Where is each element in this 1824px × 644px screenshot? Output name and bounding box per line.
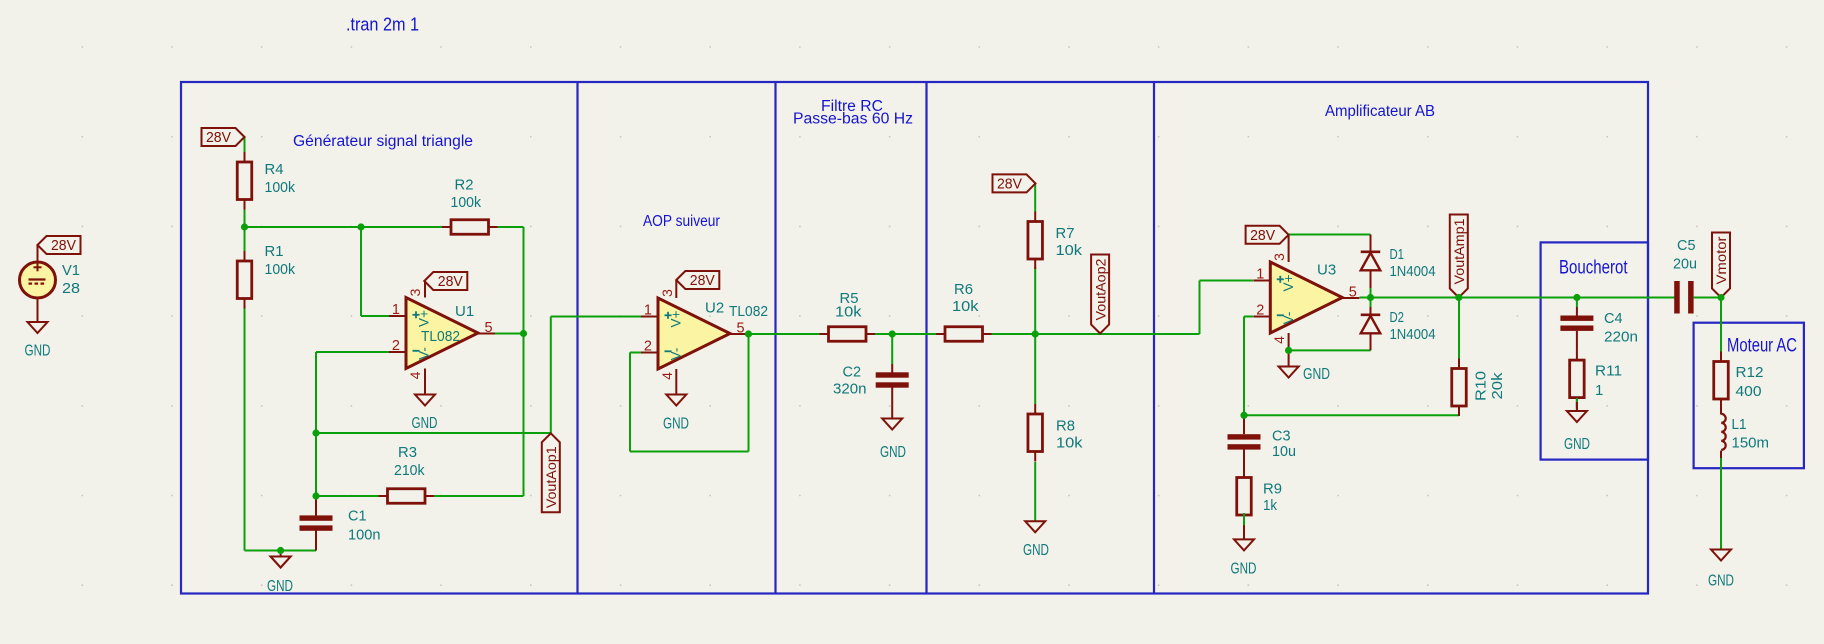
svg-text:Passe-bas 60 Hz: Passe-bas 60 Hz bbox=[793, 111, 913, 128]
svg-text:GND: GND bbox=[1023, 542, 1049, 559]
svg-text:28V: 28V bbox=[438, 274, 463, 290]
svg-text:C1: C1 bbox=[348, 508, 367, 525]
svg-text:V-: V- bbox=[669, 348, 684, 361]
svg-text:V1: V1 bbox=[62, 262, 80, 279]
svg-text:.tran 2m 1: .tran 2m 1 bbox=[346, 15, 419, 35]
svg-text:U3: U3 bbox=[1317, 262, 1336, 279]
svg-text:GND: GND bbox=[1708, 573, 1734, 590]
svg-text:10k: 10k bbox=[1056, 435, 1083, 452]
svg-text:1: 1 bbox=[1595, 382, 1603, 399]
svg-text:3: 3 bbox=[407, 288, 423, 296]
svg-text:GND: GND bbox=[880, 444, 906, 461]
svg-text:VoutAop1: VoutAop1 bbox=[543, 446, 559, 508]
svg-text:GND: GND bbox=[1303, 366, 1330, 383]
svg-text:R6: R6 bbox=[954, 281, 973, 298]
svg-text:GND: GND bbox=[267, 578, 293, 595]
svg-text:2: 2 bbox=[1256, 303, 1264, 319]
svg-text:5: 5 bbox=[737, 321, 745, 337]
svg-text:R8: R8 bbox=[1056, 418, 1075, 435]
svg-text:28: 28 bbox=[62, 280, 80, 297]
svg-text:R4: R4 bbox=[265, 161, 284, 178]
svg-text:TL082: TL082 bbox=[421, 328, 460, 345]
svg-text:3: 3 bbox=[659, 289, 675, 297]
svg-text:R10: R10 bbox=[1473, 371, 1490, 401]
svg-text:3: 3 bbox=[1271, 253, 1287, 261]
svg-text:1N4004: 1N4004 bbox=[1390, 263, 1436, 280]
svg-text:320n: 320n bbox=[833, 381, 867, 398]
svg-text:GND: GND bbox=[663, 416, 689, 433]
svg-text:Moteur AC: Moteur AC bbox=[1727, 335, 1797, 357]
svg-text:20u: 20u bbox=[1673, 256, 1697, 273]
svg-text:R3: R3 bbox=[398, 444, 417, 461]
svg-text:V-: V- bbox=[1281, 312, 1296, 325]
svg-text:150m: 150m bbox=[1732, 435, 1770, 452]
svg-text:100k: 100k bbox=[265, 261, 296, 278]
svg-text:10k: 10k bbox=[952, 298, 979, 315]
svg-text:28V: 28V bbox=[997, 177, 1022, 193]
svg-text:5: 5 bbox=[1349, 285, 1357, 301]
svg-text:V+: V+ bbox=[669, 310, 684, 327]
svg-text:R7: R7 bbox=[1056, 225, 1075, 242]
svg-text:VoutAop2: VoutAop2 bbox=[1092, 258, 1108, 320]
svg-text:28V: 28V bbox=[690, 273, 715, 289]
svg-text:Boucherot: Boucherot bbox=[1559, 257, 1628, 279]
svg-text:R12: R12 bbox=[1736, 364, 1764, 381]
svg-text:1N4004: 1N4004 bbox=[1390, 326, 1436, 343]
svg-text:28V: 28V bbox=[51, 238, 76, 254]
svg-text:4: 4 bbox=[407, 371, 423, 379]
svg-text:GND: GND bbox=[412, 415, 438, 432]
svg-text:V+: V+ bbox=[1281, 274, 1296, 291]
svg-text:V-: V- bbox=[417, 347, 432, 360]
svg-text:C5: C5 bbox=[1677, 237, 1696, 254]
svg-text:TL082: TL082 bbox=[729, 303, 768, 320]
svg-text:10k: 10k bbox=[1056, 242, 1083, 259]
svg-text:GND: GND bbox=[25, 343, 51, 360]
svg-text:AOP suiveur: AOP suiveur bbox=[643, 213, 720, 230]
svg-text:U2: U2 bbox=[705, 300, 724, 317]
svg-text:1: 1 bbox=[1256, 267, 1264, 283]
svg-text:4: 4 bbox=[659, 372, 675, 380]
svg-text:C4: C4 bbox=[1604, 310, 1623, 327]
svg-text:Vmotor: Vmotor bbox=[1713, 236, 1729, 284]
svg-text:220n: 220n bbox=[1604, 329, 1638, 346]
svg-text:C3: C3 bbox=[1272, 428, 1291, 445]
svg-text:100k: 100k bbox=[265, 179, 296, 196]
svg-text:U1: U1 bbox=[455, 303, 474, 320]
svg-text:2: 2 bbox=[644, 339, 652, 355]
svg-text:Amplificateur AB: Amplificateur AB bbox=[1325, 103, 1435, 120]
svg-text:10k: 10k bbox=[835, 304, 862, 321]
svg-text:400: 400 bbox=[1736, 383, 1762, 400]
svg-text:R11: R11 bbox=[1595, 363, 1622, 380]
svg-text:R1: R1 bbox=[265, 243, 284, 260]
svg-text:5: 5 bbox=[485, 320, 493, 336]
svg-text:100n: 100n bbox=[348, 527, 381, 544]
svg-text:4: 4 bbox=[1271, 336, 1287, 344]
svg-text:20k: 20k bbox=[1489, 372, 1506, 400]
svg-text:R9: R9 bbox=[1263, 481, 1282, 498]
svg-text:1: 1 bbox=[392, 302, 400, 318]
svg-text:R2: R2 bbox=[455, 177, 474, 194]
svg-text:V+: V+ bbox=[417, 310, 432, 327]
svg-text:C2: C2 bbox=[843, 364, 862, 381]
svg-text:10u: 10u bbox=[1272, 443, 1296, 460]
svg-text:1k: 1k bbox=[1263, 497, 1277, 514]
svg-text:Générateur signal triangle: Générateur signal triangle bbox=[293, 133, 473, 150]
svg-text:VoutAmp1: VoutAmp1 bbox=[1451, 218, 1467, 284]
svg-text:28V: 28V bbox=[206, 130, 231, 146]
svg-text:L1: L1 bbox=[1732, 416, 1747, 433]
svg-text:1: 1 bbox=[644, 303, 652, 319]
svg-text:28V: 28V bbox=[1250, 228, 1275, 244]
svg-text:100k: 100k bbox=[451, 194, 482, 211]
svg-text:D1: D1 bbox=[1390, 246, 1405, 263]
svg-text:D2: D2 bbox=[1390, 309, 1405, 326]
svg-text:GND: GND bbox=[1564, 436, 1590, 453]
svg-text:2: 2 bbox=[392, 338, 400, 354]
svg-text:210k: 210k bbox=[394, 462, 425, 479]
svg-text:GND: GND bbox=[1231, 561, 1257, 578]
